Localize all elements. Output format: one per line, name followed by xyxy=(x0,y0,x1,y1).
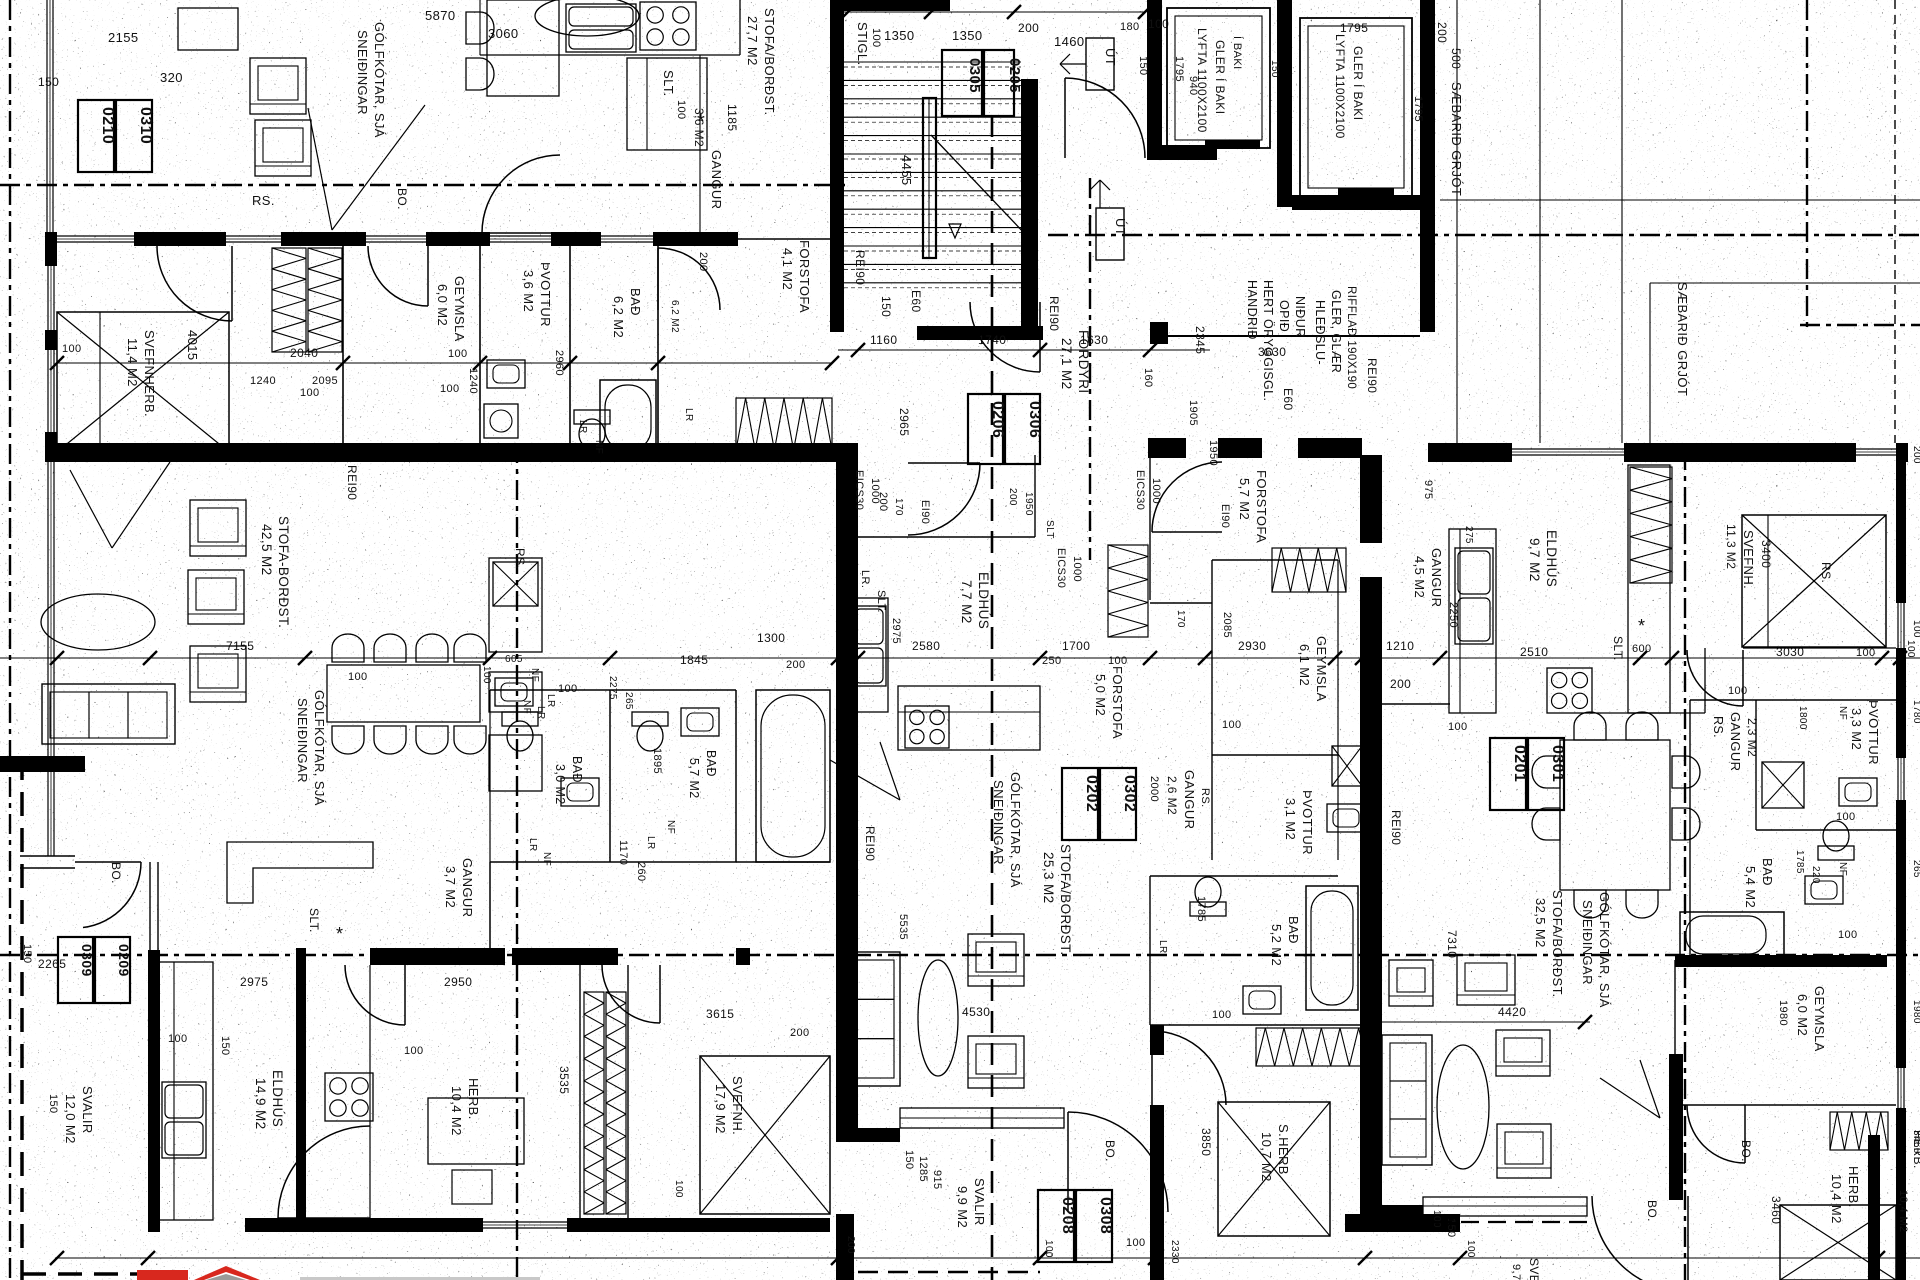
svg-text:100: 100 xyxy=(1431,1210,1442,1228)
svg-text:1980: 1980 xyxy=(1777,1000,1789,1026)
svg-text:2,6 M2: 2,6 M2 xyxy=(1165,776,1179,815)
svg-text:605: 605 xyxy=(505,654,523,665)
svg-text:220: 220 xyxy=(1810,866,1821,884)
r dining chairs xyxy=(1532,712,1700,918)
svg-text:4420: 4420 xyxy=(1498,1005,1526,1019)
elevator wall 1 xyxy=(1147,0,1162,157)
left exterior window 1 xyxy=(48,266,54,330)
svg-text:NF: NF xyxy=(593,440,604,454)
svg-text:NF: NF xyxy=(529,668,540,682)
svg-text:GANGUR: GANGUR xyxy=(1728,712,1743,771)
svg-text:NF: NF xyxy=(1837,862,1848,876)
svg-text:BAÐ: BAÐ xyxy=(1286,916,1301,944)
svg-text:3,1 M2: 3,1 M2 xyxy=(1283,798,1298,840)
svg-text:32,5 M2: 32,5 M2 xyxy=(1533,898,1548,948)
bl golfkotar xyxy=(295,690,327,806)
svg-text:17,9 M2: 17,9 M2 xyxy=(713,1084,728,1134)
svg-text:REI90: REI90 xyxy=(863,826,877,861)
wall band y239 window 1 xyxy=(57,236,134,242)
balcony edge dashed bottom xyxy=(22,1272,155,1276)
left glass wall lower xyxy=(48,462,54,856)
svg-text:0302: 0302 xyxy=(1121,775,1138,812)
tl hall door arc xyxy=(482,155,560,233)
c stofa label xyxy=(1041,844,1073,955)
svg-text:10,4 M2: 10,4 M2 xyxy=(1897,1190,1909,1233)
svg-text:100: 100 xyxy=(673,1180,684,1198)
bl eldhus door arc xyxy=(278,1126,370,1218)
c forstofa57 door xyxy=(1152,462,1222,532)
r stofa labels xyxy=(1533,890,1565,998)
svg-text:100: 100 xyxy=(1212,1009,1232,1021)
bl svalir label xyxy=(21,944,95,1144)
bl bad57 toilet xyxy=(632,712,668,751)
r pvottur sink xyxy=(1839,778,1877,806)
svg-text:3,6 M2: 3,6 M2 xyxy=(521,270,536,312)
bl partition gangur xyxy=(370,862,490,1218)
svg-text:2975: 2975 xyxy=(890,618,902,644)
wall y955 east stub xyxy=(736,948,750,965)
wall band y239 segment 3 xyxy=(426,232,490,246)
svg-text:500: 500 xyxy=(1449,48,1463,69)
bl gangur label xyxy=(443,858,475,917)
tl kitchen counter xyxy=(480,0,740,233)
fordyri door arc xyxy=(970,302,1040,372)
c forstofa57 wardrobe xyxy=(1272,548,1346,592)
wall y955 segment 2 xyxy=(512,948,618,965)
svg-text:EI90: EI90 xyxy=(919,500,931,524)
svg-text:GEYMSLA: GEYMSLA xyxy=(1812,986,1827,1052)
c pvottur wall xyxy=(1212,754,1338,756)
right exterior window3 xyxy=(1898,1068,1904,1108)
svg-text:3,7 M2: 3,7 M2 xyxy=(443,866,458,908)
svg-text:3400: 3400 xyxy=(1759,540,1773,568)
tl living armchair 2 xyxy=(255,120,311,176)
svg-text:ÞVOTTUR: ÞVOTTUR xyxy=(538,262,553,327)
svg-text:1350: 1350 xyxy=(952,28,983,43)
c svalir door xyxy=(1068,1112,1168,1212)
svg-text:ELDHÚS: ELDHÚS xyxy=(976,572,991,629)
bl bad30 label xyxy=(553,756,584,805)
bottom wall window xyxy=(483,1222,567,1228)
bl herb dims xyxy=(404,1045,571,1094)
bl oval table xyxy=(41,594,155,650)
bl bad57 tub xyxy=(756,690,830,862)
svg-text:7310: 7310 xyxy=(1445,930,1459,958)
bl bad57 dims xyxy=(645,748,676,850)
c sherb label xyxy=(1259,1124,1291,1182)
svg-text:GANGUR: GANGUR xyxy=(1429,548,1444,607)
right edge dims xyxy=(1911,446,1920,1154)
bl kitchen stove xyxy=(325,1073,373,1121)
wall right band corner xyxy=(1896,443,1908,462)
r armchair 2 xyxy=(1496,1030,1550,1076)
r gangur dims xyxy=(1386,480,1474,691)
c stofa-sherb wall black1 xyxy=(1150,1025,1164,1055)
svg-text:4015: 4015 xyxy=(185,330,200,361)
svg-text:4530: 4530 xyxy=(962,1005,990,1019)
fordyri dim line xyxy=(838,343,1210,357)
svg-text:200: 200 xyxy=(1018,21,1039,35)
svg-text:REI90: REI90 xyxy=(345,465,359,500)
grid line right h1 xyxy=(1440,199,1920,201)
c sherb door xyxy=(1152,1031,1226,1105)
c armchair1 xyxy=(968,934,1024,986)
svg-text:0205: 0205 xyxy=(1006,58,1023,93)
svg-text:HLEÐSLU-: HLEÐSLU- xyxy=(1313,300,1327,365)
r rei90 xyxy=(1389,810,1403,845)
r bottom labels xyxy=(1897,1130,1920,1233)
svg-text:100: 100 xyxy=(1222,719,1242,731)
c sherb dims xyxy=(1126,1128,1213,1249)
svg-text:RIFFLAÐ 190X190: RIFFLAÐ 190X190 xyxy=(1345,286,1357,389)
svg-text:5,7 M2: 5,7 M2 xyxy=(1237,478,1252,520)
bl door arc xyxy=(75,862,141,928)
svg-text:RS.: RS. xyxy=(1819,562,1833,583)
svg-text:REI90: REI90 xyxy=(1389,810,1403,845)
svg-text:100: 100 xyxy=(481,666,492,684)
bl partition herb/svefnh xyxy=(580,965,628,1218)
svg-text:100: 100 xyxy=(1148,17,1169,31)
svg-text:100: 100 xyxy=(300,387,320,399)
svg-text:LR: LR xyxy=(645,836,656,850)
c stofa-sherb wall black2 xyxy=(1150,1105,1164,1215)
svg-text:4,1 M2: 4,1 M2 xyxy=(780,248,795,290)
svg-text:27,1 M2: 27,1 M2 xyxy=(1059,338,1074,390)
r bottom bed xyxy=(1780,1205,1896,1280)
elevator wall 2 xyxy=(1277,0,1292,207)
tl dining chairs xyxy=(466,12,494,90)
svg-text:200: 200 xyxy=(697,252,709,272)
svg-text:42,5 M2: 42,5 M2 xyxy=(259,524,274,576)
svg-text:*: * xyxy=(1638,616,1645,636)
svg-text:RS.: RS. xyxy=(513,548,527,569)
svg-text:SLT.: SLT. xyxy=(1611,636,1625,661)
svg-text:0210: 0210 xyxy=(99,107,116,144)
wall band y239 segment 4 xyxy=(551,232,601,246)
c svalir label xyxy=(955,1178,987,1228)
wall band right-mid seg2 xyxy=(1218,438,1262,458)
svg-text:ÞVOTTUR: ÞVOTTUR xyxy=(1866,700,1881,765)
svg-text:100: 100 xyxy=(1126,1237,1146,1249)
tl svefnherb dims xyxy=(62,343,320,399)
svg-text:2095: 2095 xyxy=(312,375,338,387)
tl rei90 under band xyxy=(345,465,359,500)
svg-text:3030: 3030 xyxy=(1776,645,1804,659)
left exterior wall segment 1 xyxy=(45,232,57,266)
right top dims xyxy=(1435,22,1463,69)
tl living label xyxy=(745,8,777,116)
bl dining table xyxy=(327,665,480,722)
r pvottur label xyxy=(1849,700,1881,765)
svg-text:1285: 1285 xyxy=(917,1156,929,1182)
r svalir dashed xyxy=(1380,1221,1590,1223)
label box 0210/0310 xyxy=(78,100,154,172)
svg-text:100: 100 xyxy=(168,1033,188,1045)
bl kitchen dims xyxy=(481,654,578,708)
elevator dims xyxy=(1173,21,1424,122)
elevator wall 3 xyxy=(1420,0,1435,207)
r door arc xyxy=(1687,650,1743,706)
c kitchen sink xyxy=(852,606,886,686)
c kitchen top wall xyxy=(848,455,1035,537)
svg-text:NF: NF xyxy=(665,820,676,834)
svg-text:3,3 M2: 3,3 M2 xyxy=(1849,708,1864,750)
svg-text:1845: 1845 xyxy=(680,653,708,667)
tl door arc svefnherb xyxy=(157,246,232,321)
svg-text:STIGL.: STIGL. xyxy=(855,22,870,66)
bottom dim texts xyxy=(845,1236,1476,1264)
bl bo label xyxy=(109,862,123,884)
tl partition svefn/geymsla xyxy=(342,246,344,443)
tl golfkotar label xyxy=(355,22,387,138)
r pvottur walls xyxy=(1690,700,1896,830)
r geymsla wardrobe xyxy=(1830,1112,1888,1150)
elevator 1 car xyxy=(1167,8,1270,148)
svg-text:0208: 0208 xyxy=(1059,1197,1076,1234)
svg-text:SNEIÐINGAR: SNEIÐINGAR xyxy=(1580,900,1595,985)
c sideboard xyxy=(900,1108,1064,1128)
svg-text:0306: 0306 xyxy=(1026,401,1043,438)
svg-text:170: 170 xyxy=(1175,610,1186,628)
c kitchen stove xyxy=(905,706,949,748)
svg-text:6,2 M2: 6,2 M2 xyxy=(611,296,626,338)
fordyri dim 2965 xyxy=(897,408,911,436)
svg-text:1210: 1210 xyxy=(1386,639,1414,653)
bl bad57 sink xyxy=(681,708,719,736)
svg-text:ÚT: ÚT xyxy=(1103,48,1118,66)
svg-text:FORSTOFA: FORSTOFA xyxy=(1254,470,1269,543)
r svefnh97 label xyxy=(1510,1258,1541,1280)
bl dining chairs bottom xyxy=(332,726,486,754)
svg-text:100: 100 xyxy=(870,28,882,48)
bl bad30 toilet xyxy=(502,712,538,751)
tl wall arrow xyxy=(308,105,425,230)
svg-text:2345: 2345 xyxy=(1193,326,1207,354)
tl forstofa dims xyxy=(669,252,709,422)
c eics30 labels xyxy=(853,470,1162,588)
r dim 4420 xyxy=(1380,1005,1592,1029)
svg-text:1795: 1795 xyxy=(1340,21,1368,35)
svg-text:ELDHÚS: ELDHÚS xyxy=(1544,530,1559,587)
tl geymsla label xyxy=(435,276,467,342)
elevator 2 door xyxy=(1338,188,1394,197)
svg-text:1895: 1895 xyxy=(651,748,663,774)
svg-text:SLT.: SLT. xyxy=(875,590,887,613)
label box 0202/0302 xyxy=(1062,768,1138,840)
svg-text:GLER Í BAKI: GLER Í BAKI xyxy=(1351,46,1366,120)
grid axis vertical C xyxy=(991,115,994,1280)
c pvottur machines xyxy=(1327,746,1365,832)
svg-text:SVEFNH.: SVEFNH. xyxy=(730,1076,745,1135)
spine wall east main xyxy=(1360,577,1382,1232)
svg-text:1795: 1795 xyxy=(1412,96,1424,122)
bl armchair2 xyxy=(188,570,244,624)
svg-text:SNEIÐINGAR: SNEIÐINGAR xyxy=(355,30,370,115)
c geymsla dims xyxy=(1221,612,1266,731)
rei90 label fordyri xyxy=(1365,358,1379,393)
grid axis vertical A xyxy=(9,0,11,1280)
tl living oval xyxy=(535,0,639,36)
svg-text:STOFA/BORÐST.: STOFA/BORÐST. xyxy=(1058,844,1073,955)
svg-text:2510: 2510 xyxy=(1520,645,1548,659)
svg-text:REI90: REI90 xyxy=(853,250,867,285)
svg-text:200: 200 xyxy=(845,1236,856,1254)
svg-text:SLT: SLT xyxy=(1044,520,1055,539)
svg-text:REI90: REI90 xyxy=(1047,296,1061,331)
svg-text:STOFA-BORÐST.: STOFA-BORÐST. xyxy=(276,516,291,628)
bl svefnh dims xyxy=(673,1007,810,1198)
balcony door frame xyxy=(150,862,158,950)
svg-text:100: 100 xyxy=(348,671,368,683)
svg-text:SÆBARIÐ GRJÓT: SÆBARIÐ GRJÓT xyxy=(1449,82,1464,196)
right exterior wall seg3 xyxy=(1896,800,1906,1068)
svg-text:0301: 0301 xyxy=(1549,745,1566,782)
wall right band window2 xyxy=(1856,449,1896,455)
grid axis vertical B xyxy=(516,443,518,1280)
tl door arc geymsla xyxy=(368,246,428,306)
svg-text:5,0 M2: 5,0 M2 xyxy=(1093,674,1108,716)
r svefnh bed xyxy=(1742,515,1886,647)
c sherb bed xyxy=(1218,1102,1330,1236)
tl forstofa wardrobe xyxy=(736,398,832,450)
svg-text:200: 200 xyxy=(786,659,806,671)
svg-text:12,0 M2: 12,0 M2 xyxy=(63,1094,78,1144)
tl dims y640 xyxy=(757,631,806,671)
c eldhus dims xyxy=(859,500,940,653)
c arrow mark xyxy=(830,742,900,800)
svg-text:SLT.: SLT. xyxy=(307,908,321,933)
spine wall center bottom xyxy=(836,1214,854,1280)
svg-text:1000: 1000 xyxy=(1071,556,1083,582)
red logo xyxy=(137,1266,260,1280)
r herb dims xyxy=(1739,1140,1783,1224)
bl sofa xyxy=(42,684,175,744)
stairs xyxy=(844,62,1027,288)
c gangur label xyxy=(1148,770,1211,829)
svg-text:1700: 1700 xyxy=(1062,639,1090,653)
bl herb desk xyxy=(428,1098,524,1164)
spine wall center xyxy=(836,443,858,1142)
svg-text:200: 200 xyxy=(1390,677,1411,691)
c sofa xyxy=(848,952,900,1086)
ut box upper xyxy=(1060,38,1118,90)
svg-text:NIÐUR: NIÐUR xyxy=(1293,296,1307,338)
svg-text:320: 320 xyxy=(160,70,183,85)
svg-text:SVEFNH.: SVEFNH. xyxy=(1527,1258,1541,1280)
svg-text:9,7: 9,7 xyxy=(1510,1264,1522,1280)
stair label REI90 left xyxy=(853,250,867,285)
svg-text:0305: 0305 xyxy=(966,58,983,93)
svg-text:2930: 2930 xyxy=(1238,639,1266,653)
svg-text:GÓLFKÓTAR, SJÁ: GÓLFKÓTAR, SJÁ xyxy=(312,690,327,806)
stair label E60 xyxy=(909,290,923,313)
svg-text:SÆBARIÐ GRJÓT: SÆBARIÐ GRJÓT xyxy=(1675,282,1690,396)
r bad54 wall xyxy=(1756,829,1896,831)
svg-text:SLT.: SLT. xyxy=(661,70,676,97)
svg-text:1630: 1630 xyxy=(1080,333,1108,347)
grid line right v4 xyxy=(1649,283,1651,443)
ut box lower xyxy=(1090,180,1128,260)
bottom wall left seg2 xyxy=(567,1218,830,1232)
svg-text:1300: 1300 xyxy=(757,631,785,645)
svg-text:2000: 2000 xyxy=(1148,776,1160,802)
r herb label xyxy=(1829,1166,1861,1224)
bl dining chairs top xyxy=(332,634,486,662)
r partition living east xyxy=(1669,1054,1683,1200)
svg-text:200: 200 xyxy=(877,492,889,512)
wall band y239 segment 5 xyxy=(653,232,738,246)
tl kitchen island xyxy=(627,58,707,150)
tl wardrobe svefnherb xyxy=(272,248,342,352)
wall right band seg1 xyxy=(1428,443,1512,462)
dimension line y658 xyxy=(0,651,1920,665)
elevator dims 2 xyxy=(1120,21,1280,78)
tl bo label xyxy=(395,188,409,210)
c wardrobe xyxy=(1108,545,1148,637)
svg-text:5535: 5535 xyxy=(897,914,909,940)
svg-text:LYFTA 1100X2100: LYFTA 1100X2100 xyxy=(1333,34,1347,139)
svg-text:SVALIR: SVALIR xyxy=(972,1178,987,1226)
svg-text:10,4 M2: 10,4 M2 xyxy=(1829,1174,1844,1224)
grid axis vertical D xyxy=(1089,178,1091,560)
top dim texts xyxy=(884,17,1169,49)
tl kitchen SLT xyxy=(661,70,676,97)
tl bad label xyxy=(611,288,643,338)
tl dining table xyxy=(487,0,559,96)
svg-text:11,4 M2: 11,4 M2 xyxy=(125,338,140,387)
bl kitchen tall unit xyxy=(489,558,542,652)
r rs gangur label xyxy=(1711,712,1759,771)
svg-text:260: 260 xyxy=(635,862,647,882)
svg-text:27,7 M2: 27,7 M2 xyxy=(745,16,760,66)
svg-text:100: 100 xyxy=(62,343,82,355)
r bottom dims xyxy=(1431,1210,1457,1238)
svg-text:150: 150 xyxy=(21,944,33,964)
svg-text:*: * xyxy=(336,924,343,944)
r tall cabinet xyxy=(1628,465,1670,713)
svg-text:LR: LR xyxy=(1157,940,1168,954)
svg-text:SVEFNHERB.: SVEFNHERB. xyxy=(142,330,157,417)
svg-text:2,3 M2: 2,3 M2 xyxy=(1745,718,1759,757)
dimension line y1258 xyxy=(50,1251,1920,1265)
grid axis vertical F xyxy=(1806,0,1808,330)
bl bad30 sink xyxy=(561,778,599,806)
svg-text:STOFA/BORÐST.: STOFA/BORÐST. xyxy=(1550,890,1565,998)
r geymsla label xyxy=(1795,986,1827,1052)
r dining table xyxy=(1560,740,1670,890)
svg-text:GANGUR: GANGUR xyxy=(460,858,475,917)
wall band y239 window 2 xyxy=(226,236,281,242)
svg-text:940: 940 xyxy=(1187,76,1199,96)
tl kitchen stove xyxy=(640,2,696,50)
svg-text:0309: 0309 xyxy=(79,944,95,977)
svg-text:200: 200 xyxy=(1435,22,1449,43)
c armchair2 xyxy=(968,1036,1024,1088)
tl rs label xyxy=(252,193,275,208)
svg-text:ÚT: ÚT xyxy=(1113,218,1128,236)
grid axis horizontal 4 xyxy=(0,954,1920,956)
svg-text:BO.: BO. xyxy=(1739,1140,1753,1162)
hledslu label xyxy=(1313,286,1357,389)
svg-text:FORSTOFA: FORSTOFA xyxy=(1110,666,1125,739)
bl svefnh label xyxy=(713,1076,745,1135)
svg-text:S.HERB: S.HERB xyxy=(1276,1124,1291,1175)
c entry door xyxy=(908,463,980,535)
r partition svefnh south xyxy=(1743,647,1896,649)
svg-text:100: 100 xyxy=(1905,640,1916,658)
svg-text:100: 100 xyxy=(1043,1240,1054,1258)
svg-text:1170: 1170 xyxy=(617,840,629,865)
